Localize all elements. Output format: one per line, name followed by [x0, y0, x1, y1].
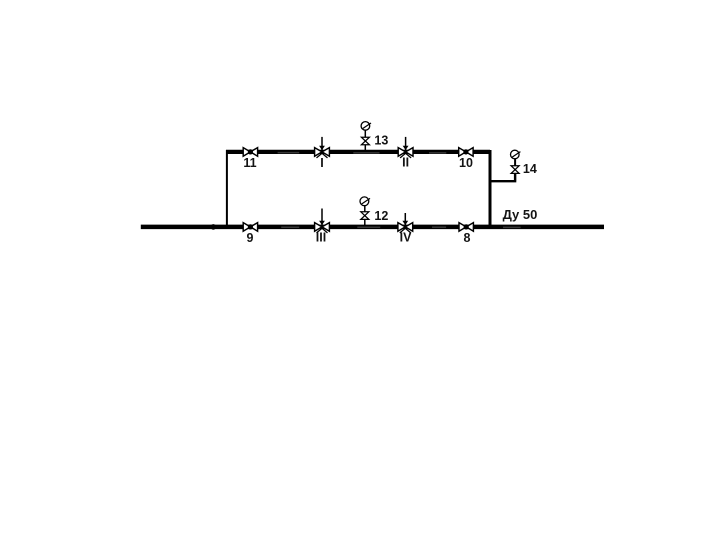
- overlap streak top pipe (between 11 and I): [278, 152, 300, 154]
- svg-text:Ду 50: Ду 50: [503, 207, 538, 222]
- svg-text:12: 12: [374, 209, 388, 223]
- svg-text:8: 8: [464, 231, 471, 245]
- gauge 12 (pressure gauge with cock on bottom pipe): [360, 197, 370, 225]
- svg-text:9: 9: [247, 231, 254, 245]
- svg-text:II: II: [402, 156, 409, 170]
- overlap streak top pipe (around gauge 13 tap): [353, 152, 379, 154]
- svg-text:11: 11: [243, 156, 256, 170]
- right riser wire: [489, 150, 492, 229]
- valve II (meter valve with stem on top pipe): [398, 137, 413, 158]
- overlap streak bottom pipe (between IV and 8): [432, 226, 446, 228]
- top bypass pipe: [226, 150, 490, 154]
- svg-text:III: III: [316, 231, 326, 245]
- valve IV (meter valve with stem on bottom pipe): [398, 213, 413, 233]
- overlap streak bottom pipe (between 9 and III): [281, 226, 299, 228]
- valve 11 (ball valve on top pipe): [243, 148, 257, 157]
- left riser wire: [226, 150, 228, 229]
- valve 8 (ball valve on bottom pipe): [459, 223, 473, 232]
- overlap streak bottom pipe (right of riser): [503, 226, 521, 228]
- main supply pipe (bottom): [141, 225, 604, 230]
- junction node on bottom pipe: [211, 224, 217, 230]
- branch wire to gauge 14: [489, 172, 515, 181]
- svg-text:10: 10: [459, 156, 473, 170]
- valve 9 (ball valve on bottom pipe): [243, 223, 257, 232]
- valve III (meter valve with stem on bottom pipe): [315, 209, 330, 233]
- svg-text:13: 13: [374, 134, 388, 148]
- gauge 14 (pressure gauge with cock on branch): [511, 150, 521, 181]
- svg-text:I: I: [320, 156, 323, 170]
- valve I (meter valve with stem on top pipe): [315, 137, 330, 158]
- overlap streak top pipe (between II and 10): [429, 152, 446, 154]
- gauge 13 (pressure gauge with cock on top pipe): [361, 122, 371, 151]
- overlap streak bottom pipe (around gauge 12 tap): [357, 226, 380, 228]
- svg-text:14: 14: [523, 162, 537, 176]
- svg-text:IV: IV: [400, 231, 412, 245]
- valve 10 (ball valve on top pipe): [459, 148, 473, 157]
